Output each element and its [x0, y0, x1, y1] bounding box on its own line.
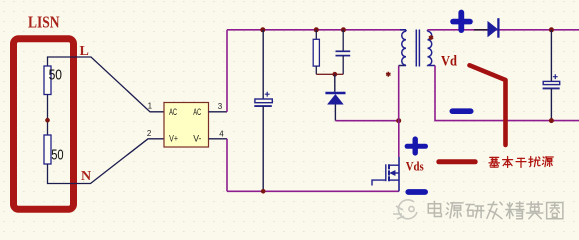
capacitor C1 bulk electrolytic — [254, 30, 272, 192]
junction node snubber C top — [341, 27, 346, 32]
pin 2 number — [147, 129, 152, 138]
annotation label 基本干扰源 — [489, 156, 553, 167]
wire primary bottom riser — [399, 66, 406, 121]
polarity asterisk secondary — [429, 35, 433, 40]
Vd label — [441, 54, 458, 70]
svg-text:LISN: LISN — [28, 12, 60, 31]
pin 3 number — [218, 102, 223, 111]
svg-text:3: 3 — [218, 102, 223, 111]
junction dot between R1 and R2 — [45, 118, 50, 123]
wire N: resistor R2 bottom to node N and diagonal to pin 2 — [48, 139, 165, 184]
capacitor C snubber — [336, 30, 351, 75]
junction node drain — [396, 118, 401, 123]
LISN enclosure box — [14, 39, 74, 209]
pin 3 stub wire — [209, 111, 228, 113]
svg-text:1: 1 — [148, 101, 153, 110]
wire drain dropper to mosfet — [398, 121, 400, 157]
pin 1 number — [148, 101, 153, 110]
pin 4 number — [219, 130, 224, 139]
resistor R1 50 — [44, 66, 62, 95]
svg-text:2: 2 — [147, 129, 152, 138]
svg-text:Vds: Vds — [406, 159, 424, 174]
transistor Q1 mosfet — [372, 157, 399, 191]
wire pin4 dropper — [226, 139, 228, 192]
diode D output rectifier — [488, 18, 499, 38]
watermark text 电源研发精英圈 — [428, 201, 563, 218]
junction node snubber R top — [314, 27, 319, 32]
junction node bulk cap bottom — [261, 189, 266, 194]
capacitor C output electrolytic — [543, 30, 560, 121]
svg-text:V-: V- — [193, 134, 201, 144]
minus symbol output — [452, 108, 470, 114]
transformer T1 secondary winding — [428, 30, 436, 66]
wire pin3 riser — [226, 30, 228, 112]
resistor R2 50 — [44, 135, 64, 164]
svg-text:50: 50 — [51, 147, 63, 164]
junction node snubber diode — [332, 72, 337, 77]
minus symbol Vds — [408, 189, 425, 195]
polarity asterisk primary — [386, 72, 390, 77]
wire diode to drain node — [335, 120, 398, 122]
annotation pointer line to Vds — [439, 159, 475, 164]
svg-text:50: 50 — [49, 67, 62, 84]
wire segment before output diode — [474, 29, 488, 31]
diode D snubber clamp — [325, 74, 345, 120]
wire secondary bottom dropper and rail — [435, 66, 579, 121]
wire top rail — [227, 29, 406, 31]
transformer T1 primary winding — [400, 30, 406, 66]
junction node output cap top — [549, 27, 554, 32]
junction node output cap bottom — [549, 118, 554, 123]
svg-text:Vd: Vd — [441, 54, 458, 70]
plus symbol output top — [453, 13, 470, 31]
LISN label — [28, 12, 60, 31]
watermark camera icon — [393, 200, 417, 219]
node N label — [81, 169, 91, 184]
junction node bulk cap top — [260, 27, 265, 32]
bridge rectifier U1 body — [164, 103, 209, 148]
svg-text:AC: AC — [193, 107, 201, 117]
wire L: resistor R1 top to node L and diagonal to pin 1 — [48, 57, 165, 112]
svg-text:N: N — [81, 169, 91, 184]
wire between resistors — [47, 95, 49, 136]
plus symbol Vds — [407, 139, 425, 153]
annotation pointer line to Vd — [470, 65, 506, 145]
Vds label — [406, 159, 424, 174]
transformer T1 core — [416, 30, 419, 67]
wire secondary top — [428, 29, 579, 31]
wire bottom rail — [227, 190, 399, 192]
svg-text:4: 4 — [219, 130, 224, 139]
svg-text:AC: AC — [169, 107, 177, 117]
node L label — [80, 44, 89, 59]
svg-text:L: L — [80, 44, 89, 59]
svg-text:V+: V+ — [169, 134, 178, 144]
resistor R snubber — [313, 30, 319, 75]
pin 4 stub wire — [209, 138, 228, 140]
wire snubber bottom — [316, 73, 343, 75]
